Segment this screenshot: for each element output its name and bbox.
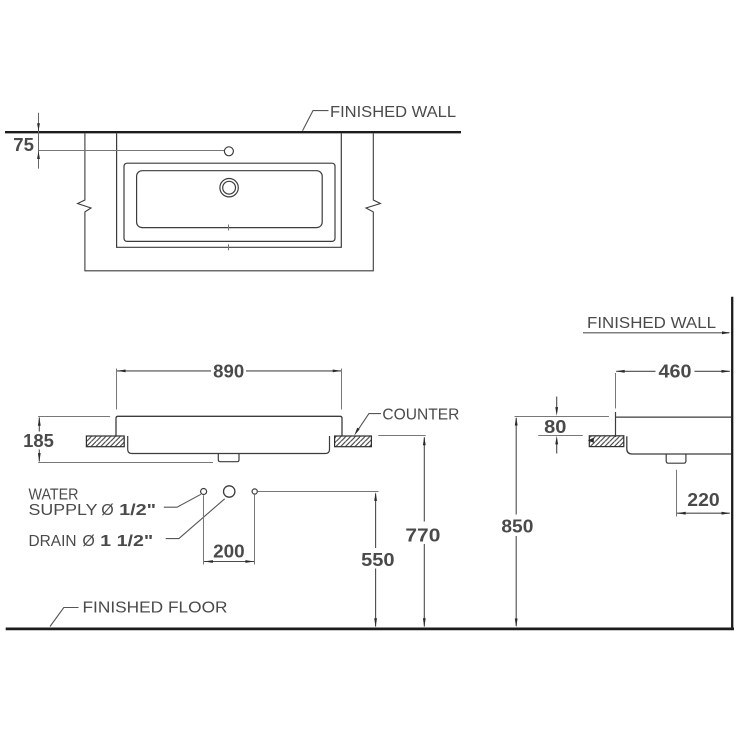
svg-text:1/2": 1/2" bbox=[119, 502, 156, 519]
svg-text:850: 850 bbox=[501, 517, 533, 537]
svg-text:80: 80 bbox=[544, 417, 566, 437]
svg-text:WATER: WATER bbox=[29, 486, 79, 503]
svg-text:Ø: Ø bbox=[82, 533, 94, 550]
svg-text:SUPPLY: SUPPLY bbox=[29, 502, 98, 519]
svg-text:FINISHED WALL: FINISHED WALL bbox=[587, 315, 716, 332]
svg-text:890: 890 bbox=[213, 361, 244, 381]
svg-text:460: 460 bbox=[659, 361, 692, 381]
svg-text:1 1/2": 1 1/2" bbox=[100, 533, 153, 550]
svg-text:COUNTER: COUNTER bbox=[382, 407, 459, 424]
svg-text:770: 770 bbox=[405, 525, 440, 545]
svg-text:FINISHED FLOOR: FINISHED FLOOR bbox=[83, 600, 228, 617]
svg-text:185: 185 bbox=[23, 431, 54, 451]
svg-text:200: 200 bbox=[213, 541, 245, 561]
svg-text:550: 550 bbox=[361, 550, 395, 570]
svg-text:FINISHED WALL: FINISHED WALL bbox=[330, 104, 456, 121]
svg-text:DRAIN: DRAIN bbox=[29, 533, 77, 550]
svg-text:Ø: Ø bbox=[101, 502, 113, 519]
svg-text:220: 220 bbox=[687, 490, 719, 510]
svg-text:75: 75 bbox=[13, 135, 34, 155]
